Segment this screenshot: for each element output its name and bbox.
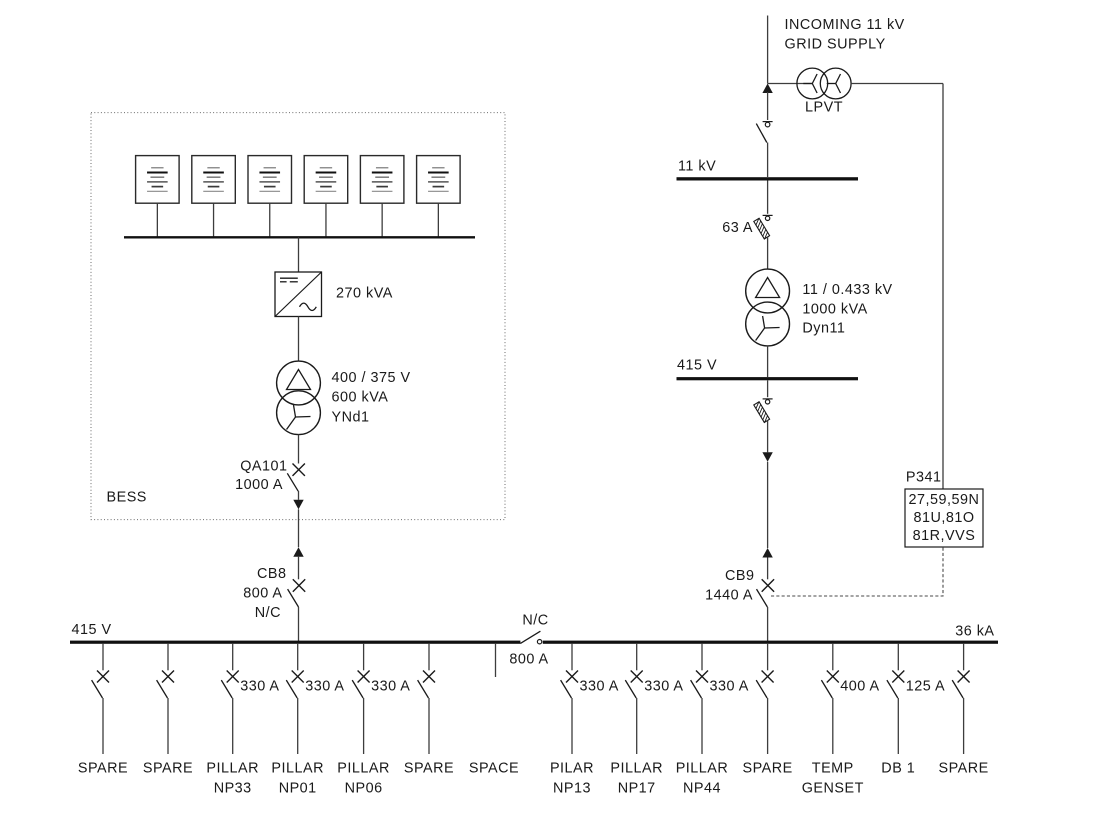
battery module B1 [136,156,180,238]
disconnector (grid isolator) [756,122,772,143]
label INCOMING 11 kV GRID SUPPLY [785,17,905,52]
main busbar 415 V right section [543,641,998,644]
svg-text:400 A: 400 A [840,679,879,695]
wire T2 to QA101 [298,435,300,464]
svg-text:NP06: NP06 [345,781,383,797]
svg-text:NP01: NP01 [279,781,317,797]
svg-text:330 A: 330 A [644,679,683,695]
svg-text:GRID SUPPLY: GRID SUPPLY [785,36,886,52]
svg-text:NP13: NP13 [553,781,591,797]
battery module B4 [304,156,348,238]
svg-text:NP44: NP44 [683,781,721,797]
inverter (DC/AC) 270 kVA [275,272,322,317]
svg-text:330 A: 330 A [580,679,619,695]
wire between arrows (grid) [767,462,769,548]
svg-text:NP17: NP17 [618,781,656,797]
wire QA101 to arrow [298,491,300,500]
relay P341 box [905,489,983,547]
breaker CB8 [288,579,306,607]
bus section switch N/C 800 A [520,631,541,644]
label CB9 [705,568,754,603]
feeder breaker SPARE [143,644,193,777]
svg-text:YNd1: YNd1 [332,409,370,425]
voltage transformer LPVT [797,68,851,99]
wire inverter to transformer T2 [298,317,300,362]
svg-text:330 A: 330 A [240,679,279,695]
svg-text:330 A: 330 A [710,679,749,695]
feeder breaker PILLAR/NP01 [271,644,344,797]
busbar 415 V (transformer secondary) [677,377,859,380]
wire incoming supply drop [767,16,769,84]
svg-text:PILLAR: PILLAR [610,761,663,777]
svg-text:1440 A: 1440 A [705,587,753,603]
feeder breaker TEMP/GENSET [802,644,880,797]
feeder breaker SPARE [938,644,988,777]
feeder breaker PILLAR/NP17 [610,644,683,797]
svg-text:PILLAR: PILLAR [206,761,259,777]
feeder breaker PILLAR/NP44 [676,644,749,797]
svg-text:36 kA: 36 kA [955,623,994,639]
flow arrow down (BESS outfeed) [293,500,303,510]
svg-text:11 / 0.433 kV: 11 / 0.433 kV [802,282,892,298]
svg-text:600 kVA: 600 kVA [332,390,389,406]
relay functions text [909,492,980,544]
wire disconnector to 11kV bus [767,143,769,178]
flow arrow up (to LPVT tap) [762,84,772,94]
battery module B5 [360,156,404,238]
label 63 A [722,220,753,236]
label T1 ratings [802,282,892,337]
svg-text:1000 kVA: 1000 kVA [802,301,867,317]
feeder breaker PILLAR/NP33 [206,644,279,797]
switch QA101 [287,464,305,492]
svg-text:P341: P341 [906,469,942,485]
svg-text:SPARE: SPARE [143,761,193,777]
label CB8 [243,566,286,621]
svg-text:PILLAR: PILLAR [271,761,324,777]
svg-text:SPARE: SPARE [742,761,792,777]
transformer T1 secondary (wye) [746,302,790,346]
breaker CB9 [757,579,775,607]
wire arrow to CB8 [298,557,300,580]
svg-text:N/C: N/C [255,605,281,621]
wire CB8 to main bus [298,607,300,641]
battery module B6 [417,156,461,238]
battery module B2 [192,156,236,238]
svg-text:270 kVA: 270 kVA [336,286,393,302]
flow arrow up (to CB9) [762,548,772,558]
svg-text:NP33: NP33 [214,781,252,797]
svg-text:11 kV: 11 kV [678,159,716,175]
svg-text:CB9: CB9 [725,568,755,584]
svg-text:PILLAR: PILLAR [676,761,729,777]
svg-text:SPARE: SPARE [938,761,988,777]
wire fuse to arrow [767,421,769,453]
wire right loop down to relay [942,84,944,490]
label LPVT [805,100,843,116]
svg-text:TEMP: TEMP [812,761,854,777]
wire 11kV bus to 63A fuse [767,181,769,214]
svg-text:SPACE: SPACE [469,761,519,777]
svg-text:CB8: CB8 [257,566,287,582]
svg-text:GENSET: GENSET [802,781,864,797]
svg-text:415 V: 415 V [677,358,717,374]
protection trip link (dashed) [771,548,943,597]
label 36 kA [955,623,994,639]
transformer T2 secondary (wye) [277,391,321,435]
feeder breaker DB 1 [881,644,945,777]
transformer T2 primary (delta) [277,361,321,405]
svg-text:800 A: 800 A [243,586,282,602]
SPACE stub wire [495,644,497,677]
svg-text:330 A: 330 A [371,679,410,695]
svg-text:Dyn11: Dyn11 [802,321,845,337]
svg-text:DB 1: DB 1 [881,761,915,777]
svg-text:63 A: 63 A [722,220,753,236]
wire between arrows (BESS) [298,509,300,547]
svg-text:SPARE: SPARE [404,761,454,777]
svg-text:N/C: N/C [522,613,548,629]
busbar 11 kV [677,177,859,180]
svg-text:81R,VVS: 81R,VVS [913,528,976,544]
svg-text:81U,81O: 81U,81O [913,510,974,526]
svg-text:330 A: 330 A [305,679,344,695]
wire 415V bus to fuse-switch [767,380,769,397]
feeder breaker SPARE [78,644,128,777]
feeder breaker PILAR/NP13 [550,644,619,797]
feeder breaker SPARE [742,644,792,777]
svg-text:415 V: 415 V [72,622,112,638]
svg-text:LPVT: LPVT [805,100,843,116]
svg-text:QA101: QA101 [240,459,287,475]
label BESS [107,490,147,506]
DC busbar (battery bus) [124,236,475,238]
flow arrow down (grid infeed) [762,452,772,462]
svg-text:400 / 375 V: 400 / 375 V [332,370,411,386]
feeder breaker SPARE [404,644,454,777]
transformer T1 primary (delta) [746,269,790,313]
label T2 ratings [332,370,411,425]
svg-text:INCOMING 11 kV: INCOMING 11 kV [785,17,905,33]
svg-text:SPARE: SPARE [78,761,128,777]
svg-text:BESS: BESS [107,490,147,506]
BESS enclosure (dotted) [91,113,505,520]
svg-text:PILAR: PILAR [550,761,594,777]
label SPACE [469,761,519,777]
fuse-switch 63 A [754,215,773,239]
wire LPVT tap left segment [768,83,812,85]
label 415 V (tx bus) [677,358,717,374]
label 11 kV [678,159,716,175]
wire T1 to 415V bus [767,346,769,377]
wire DC bus to inverter [298,237,300,272]
main busbar 415 V left section [70,641,520,644]
wire LPVT to right loop [851,83,943,85]
label 415 V (main bus) [72,622,112,638]
svg-text:125 A: 125 A [906,679,945,695]
svg-text:27,59,59N: 27,59,59N [909,492,980,508]
label QA101 [235,459,287,494]
wire arrow to CB9 [767,558,769,580]
fuse-switch (415V side) [754,399,773,423]
feeder breaker PILLAR/NP06 [337,644,410,797]
label P341 [906,469,942,485]
wire CB9 to main bus [767,607,769,641]
label N/C (bus section) [522,613,548,629]
svg-text:1000 A: 1000 A [235,477,283,493]
svg-text:800 A: 800 A [509,651,548,667]
label 800 A (bus section) [509,651,548,667]
wire arrow to disconnector [767,92,769,120]
svg-text:PILLAR: PILLAR [337,761,390,777]
wire fuse to transformer T1 [767,237,769,270]
flow arrow up (to CB8) [293,547,303,557]
label 270 kVA [336,286,393,302]
battery module B3 [248,156,292,238]
